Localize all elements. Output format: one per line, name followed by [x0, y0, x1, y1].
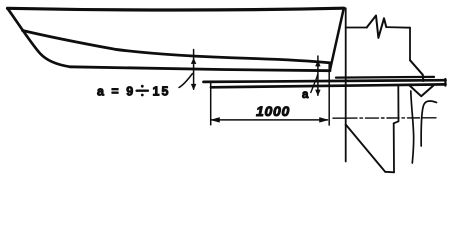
svg-text:a = 9: a = 9 [97, 85, 135, 99]
plate board top edge [204, 80, 446, 82]
plate right end cap [444, 79, 446, 86]
gearcase skeg diagonal [346, 125, 386, 172]
leader hook right [311, 75, 318, 93]
svg-text:1000: 1000 [256, 103, 290, 119]
dimension vertical left [193, 50, 195, 90]
1000 left arrowhead [211, 118, 219, 123]
svg-text:15: 15 [153, 85, 171, 99]
motor bracket horizontal right [386, 26, 410, 29]
right upper arrowhead [316, 61, 321, 66]
transom [330, 8, 344, 70]
gearcase rear step [394, 86, 399, 124]
1000 right arrowhead [320, 118, 328, 123]
gearcase bottom edge [385, 171, 394, 174]
plate board bottom edge [211, 84, 446, 87]
motor front vertical line [345, 8, 347, 161]
propeller shaft dash-dot centerline [333, 117, 436, 119]
chine line [23, 31, 331, 63]
boat deck sheer line [8, 8, 344, 10]
propeller V notch [410, 86, 434, 97]
motor cowl diagonal [410, 60, 423, 81]
right lower arrowhead [316, 90, 321, 95]
motor bracket horizontal left [346, 27, 367, 29]
gearcase rear lower vertical [393, 123, 395, 172]
bow stem [8, 8, 71, 67]
extension line right for 1000 [328, 63, 330, 126]
dimension line 1000 [212, 119, 328, 121]
dimension vertical right [317, 56, 319, 95]
leader hook left [179, 74, 193, 88]
extension line left for 1000 [210, 82, 212, 125]
break symbol zigzag [367, 16, 387, 38]
motor cowl rear vertical [409, 28, 411, 61]
propeller blade curve B [421, 101, 436, 146]
anti-ventilation plate top line [336, 76, 434, 79]
propeller blade curve A [411, 91, 414, 163]
left upper arrowhead [191, 59, 196, 64]
keel bottom line [70, 67, 330, 71]
svg-text:a: a [302, 89, 309, 101]
left lower arrowhead [191, 84, 196, 89]
